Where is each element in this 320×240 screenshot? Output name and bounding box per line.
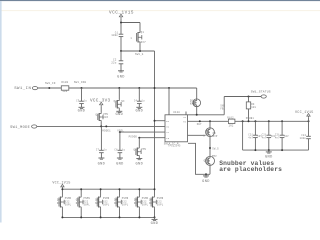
svg-text:2R2: 2R2 <box>229 124 234 127</box>
svg-text:Q1: Q1 <box>141 31 145 34</box>
svg-text:SW1_STATUS: SW1_STATUS <box>251 90 271 93</box>
svg-text:4n7: 4n7 <box>275 137 280 140</box>
svg-text:30PL: 30PL <box>157 204 164 207</box>
svg-text:PG: PG <box>166 137 170 140</box>
svg-text:U12A: U12A <box>173 111 180 114</box>
svg-text:SW1_IN: SW1_IN <box>45 82 56 85</box>
svg-text:SW1_IN: SW1_IN <box>14 87 31 91</box>
svg-text:EN: EN <box>166 120 170 123</box>
svg-text:SW: SW <box>183 116 187 119</box>
svg-text:MODE1: MODE1 <box>102 129 111 132</box>
svg-text:VCC_1V15: VCC_1V15 <box>52 181 70 185</box>
svg-text:PMV: PMV <box>141 148 146 151</box>
svg-text:1u: 1u <box>104 149 108 152</box>
svg-text:R100: R100 <box>61 81 68 84</box>
svg-text:NX: NX <box>121 100 125 103</box>
svg-text:PGOOD: PGOOD <box>129 135 138 138</box>
svg-text:C3: C3 <box>76 100 80 103</box>
svg-text:GND: GND <box>135 162 143 166</box>
svg-text:50V: 50V <box>284 135 289 138</box>
svg-text:MD: MD <box>166 126 170 129</box>
svg-text:4n7: 4n7 <box>262 137 267 140</box>
svg-text:NX: NX <box>95 202 99 205</box>
svg-text:GND: GND <box>115 113 123 117</box>
svg-text:Q7: Q7 <box>204 159 208 162</box>
svg-text:C8: C8 <box>114 149 118 152</box>
svg-text:30PL: 30PL <box>84 204 91 207</box>
svg-text:30PL: 30PL <box>122 204 129 207</box>
svg-text:GND: GND <box>265 155 273 159</box>
svg-text:C4: C4 <box>134 100 138 103</box>
svg-text:SW1_INB: SW1_INB <box>74 81 87 84</box>
svg-text:Q3: Q3 <box>114 100 118 103</box>
svg-text:are placeholders: are placeholders <box>219 166 282 173</box>
svg-text:GND: GND <box>202 180 210 184</box>
svg-text:SW1_G: SW1_G <box>135 53 144 56</box>
svg-text:GND: GND <box>116 162 124 166</box>
svg-text:NX: NX <box>149 202 153 205</box>
svg-text:22u: 22u <box>111 62 117 65</box>
svg-text:Q2: Q2 <box>96 113 100 116</box>
svg-text:SNUB1: SNUB1 <box>246 117 255 120</box>
svg-text:GND: GND <box>117 75 125 79</box>
svg-text:R102: R102 <box>227 117 234 120</box>
svg-text:GND: GND <box>98 162 106 166</box>
svg-text:20X: 20X <box>103 116 108 119</box>
svg-text:NX: NX <box>134 202 138 205</box>
svg-text:OUT: OUT <box>197 123 202 126</box>
svg-text:NXP: NXP <box>213 135 218 138</box>
svg-text:1u: 1u <box>141 100 145 103</box>
svg-text:100n: 100n <box>300 137 307 140</box>
svg-text:30PL: 30PL <box>103 204 110 207</box>
svg-text:GND: GND <box>151 222 159 226</box>
svg-text:30PL: 30PL <box>142 204 149 207</box>
svg-text:Q4: Q4 <box>134 148 138 151</box>
svg-text:NX7: NX7 <box>141 41 147 44</box>
svg-text:10k: 10k <box>251 106 256 109</box>
svg-text:FB1: FB1 <box>220 107 225 110</box>
svg-text:VS: VS <box>166 131 170 134</box>
svg-text:1u: 1u <box>84 100 88 103</box>
svg-text:C7: C7 <box>96 149 100 152</box>
svg-text:FB: FB <box>183 121 187 124</box>
svg-text:NX: NX <box>76 202 80 205</box>
svg-text:SW1_MODE: SW1_MODE <box>10 126 30 130</box>
svg-text:NX: NX <box>190 102 194 105</box>
svg-text:100n: 100n <box>111 34 118 37</box>
svg-text:NX: NX <box>57 202 61 205</box>
svg-text:GND: GND <box>78 109 86 113</box>
svg-text:TPS12345: TPS12345 <box>168 144 181 147</box>
svg-text:NX: NX <box>114 202 118 205</box>
svg-text:GND: GND <box>135 109 143 113</box>
svg-text:30PL: 30PL <box>65 204 72 207</box>
svg-text:PMV: PMV <box>212 155 217 158</box>
svg-text:4n7: 4n7 <box>248 137 253 140</box>
svg-text:10k: 10k <box>62 89 68 93</box>
svg-text:VCC_3V3: VCC_3V3 <box>90 98 111 103</box>
svg-text:1u: 1u <box>122 149 126 152</box>
svg-text:SW_S: SW_S <box>212 147 219 150</box>
svg-text:VSEL: VSEL <box>117 130 124 133</box>
svg-text:VCC_1V15: VCC_1V15 <box>295 111 314 115</box>
